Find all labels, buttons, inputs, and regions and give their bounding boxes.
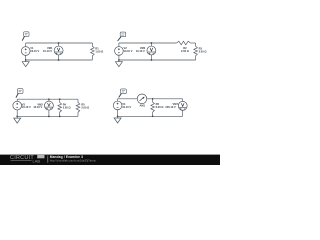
resistor R3: [194, 43, 207, 60]
annotation note : circuit3: [16, 89, 23, 98]
footer separator: [47, 156, 49, 163]
svg-text:10.10 V: 10.10 V: [22, 105, 31, 109]
ground : circuit3: [14, 116, 21, 123]
annotation note : circuit1: [22, 32, 29, 41]
voltage source V4: [113, 99, 131, 117]
wire : circuit4 bottom rail: [118, 115, 183, 117]
footer bar: [0, 155, 220, 165]
annotation note : circuit2: [118, 32, 126, 41]
voltmeter VM3: [33, 99, 53, 116]
wire : circuit1 top rail: [26, 42, 93, 44]
node : VM3 bottom junction: [48, 116, 50, 118]
node : R6 top junction: [152, 98, 154, 100]
svg-text:10.10 V: 10.10 V: [43, 49, 52, 53]
ammeter AM1: [137, 94, 147, 107]
svg-text:2.00 Ω: 2.00 Ω: [181, 49, 189, 53]
svg-text:10.10 V: 10.10 V: [122, 105, 131, 109]
CircuitLab logo: [10, 155, 45, 164]
voltage source V3: [13, 99, 31, 116]
node : R4 bottom junction: [59, 116, 61, 118]
wire : circuit2 top rail left of R2: [119, 42, 177, 44]
node : V2 ground junction: [118, 59, 120, 61]
svg-text:1.00 Ω: 1.00 Ω: [95, 49, 103, 53]
node : R6 bottom junction: [152, 115, 154, 117]
svg-text:10.10 V: 10.10 V: [33, 105, 42, 109]
node : R4 top junction: [59, 98, 61, 100]
svg-text:LAB: LAB: [33, 159, 41, 164]
svg-text:2.00 Ω: 2.00 Ω: [63, 106, 71, 110]
node : VM3 top junction: [48, 98, 50, 100]
node : V1 ground junction: [25, 59, 27, 61]
voltmeter VM7: [165, 99, 187, 117]
svg-text:10.10 V: 10.10 V: [30, 49, 39, 53]
annotation note : circuit4: [119, 89, 127, 98]
svg-text:10.10 V: 10.10 V: [136, 49, 145, 53]
svg-text:AM1: AM1: [139, 103, 145, 107]
svg-text:http://circuitlab.com/cmc2da33: http://circuitlab.com/cmc2da33j7anno: [50, 158, 97, 162]
svg-text:CIRCUIT: CIRCUIT: [10, 155, 34, 161]
voltmeter VM2: [136, 43, 156, 60]
wire : circuit3 bottom rail: [17, 115, 78, 117]
wire : circuit2 top rail right of R2: [191, 42, 196, 44]
ground : circuit1: [22, 60, 29, 67]
node : VM2 bottom junction: [151, 59, 153, 61]
resistor R2: [177, 41, 191, 53]
node : V3 ground junction: [16, 116, 18, 118]
wire : circuit2 bottom rail: [119, 59, 196, 61]
ground : circuit4: [114, 116, 121, 123]
svg-text:2.00 Ω: 2.00 Ω: [81, 106, 89, 110]
resistor R1: [91, 43, 104, 60]
resistor R4: [58, 99, 71, 116]
resistor R6: [151, 99, 164, 117]
wire : circuit3 top rail: [17, 98, 78, 100]
voltage source V2: [115, 43, 133, 60]
node : VM2 top junction: [151, 42, 153, 44]
wire : circuit4 top rail right of AM1: [147, 98, 183, 100]
svg-text:200.10 V: 200.10 V: [165, 105, 176, 109]
resistor R5: [76, 99, 89, 116]
svg-text:2.00 Ω: 2.00 Ω: [199, 49, 207, 53]
wire : circuit1 bottom rail: [26, 59, 93, 61]
svg-text:10.10 V: 10.10 V: [124, 49, 133, 53]
node : VM1 bottom junction: [58, 59, 60, 61]
wire : circuit4 top rail left of AM1: [118, 98, 138, 100]
node : V4 ground junction: [117, 115, 119, 117]
svg-text:6.00 Ω: 6.00 Ω: [156, 105, 164, 109]
ground : circuit2: [115, 60, 122, 67]
voltage source V1: [21, 43, 39, 60]
node : VM1 top junction: [58, 42, 60, 44]
voltmeter VM1: [43, 43, 63, 60]
